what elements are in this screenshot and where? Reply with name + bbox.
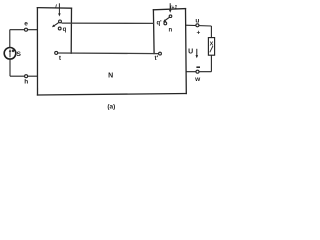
wire left vertical top [9, 30, 11, 48]
terminal e circle [25, 28, 28, 31]
network box N top edge left segment [37, 7, 71, 10]
notch wall right [152, 10, 155, 54]
load internal diagonal [210, 46, 213, 52]
terminal w circle [196, 70, 199, 73]
svg-text:q: q [63, 27, 67, 33]
wire left vertical bottom [9, 59, 11, 76]
inner bus line A [62, 22, 155, 24]
switch q stub arrowhead [58, 13, 61, 16]
source S circle [4, 48, 16, 60]
svg-text:i+1: i+1 [170, 5, 177, 11]
terminal t [55, 51, 58, 54]
network box N top edge right segment [153, 9, 185, 10]
wire right corner down [210, 26, 212, 38]
svg-text:i: i [55, 4, 57, 10]
U arrow down [196, 49, 198, 56]
svg-text:u: u [195, 17, 199, 24]
svg-text:S: S [16, 51, 21, 58]
svg-text:+: + [197, 29, 201, 36]
terminal u circle [196, 24, 199, 27]
svg-text:(a): (a) [107, 104, 115, 111]
network box N right edge [185, 9, 188, 94]
svg-text:w: w [194, 76, 201, 83]
svg-text:t': t' [155, 55, 159, 62]
svg-text:N: N [108, 72, 113, 79]
inner bus line B t-t' [58, 52, 159, 55]
wire w [186, 71, 212, 73]
notch wall left [70, 8, 72, 53]
minus sign [196, 66, 200, 68]
wire e [10, 29, 38, 31]
terminal h circle [25, 75, 28, 78]
switch q' hinge circle [169, 15, 172, 18]
svg-text:t: t [59, 55, 62, 62]
load box X [208, 38, 214, 56]
switch q arm arrowhead [52, 25, 55, 28]
switch q hinge circle [59, 20, 62, 23]
source S arrow [9, 51, 11, 57]
switch q' arm [165, 17, 170, 20]
wire u [185, 24, 211, 27]
network box N left edge [36, 8, 38, 95]
svg-text:U: U [188, 49, 193, 56]
wire load bottom down [210, 55, 212, 71]
svg-text:h: h [24, 78, 28, 85]
switch q' contact circle [164, 22, 167, 25]
switch q contact circle [58, 27, 61, 30]
terminal t' [159, 52, 162, 55]
wire h [10, 75, 38, 77]
switch q' arm arrowhead [163, 19, 166, 22]
switch q current stub i [58, 3, 60, 14]
switch q' stub arrowhead [169, 10, 172, 13]
switch q' current stub i+1 [169, 3, 171, 10]
source S star [12, 50, 15, 52]
network box N bottom edge [38, 94, 187, 96]
svg-text:n: n [168, 28, 172, 34]
svg-text:q': q' [156, 21, 162, 27]
switch q arm [54, 22, 59, 26]
svg-text:e: e [24, 21, 28, 28]
